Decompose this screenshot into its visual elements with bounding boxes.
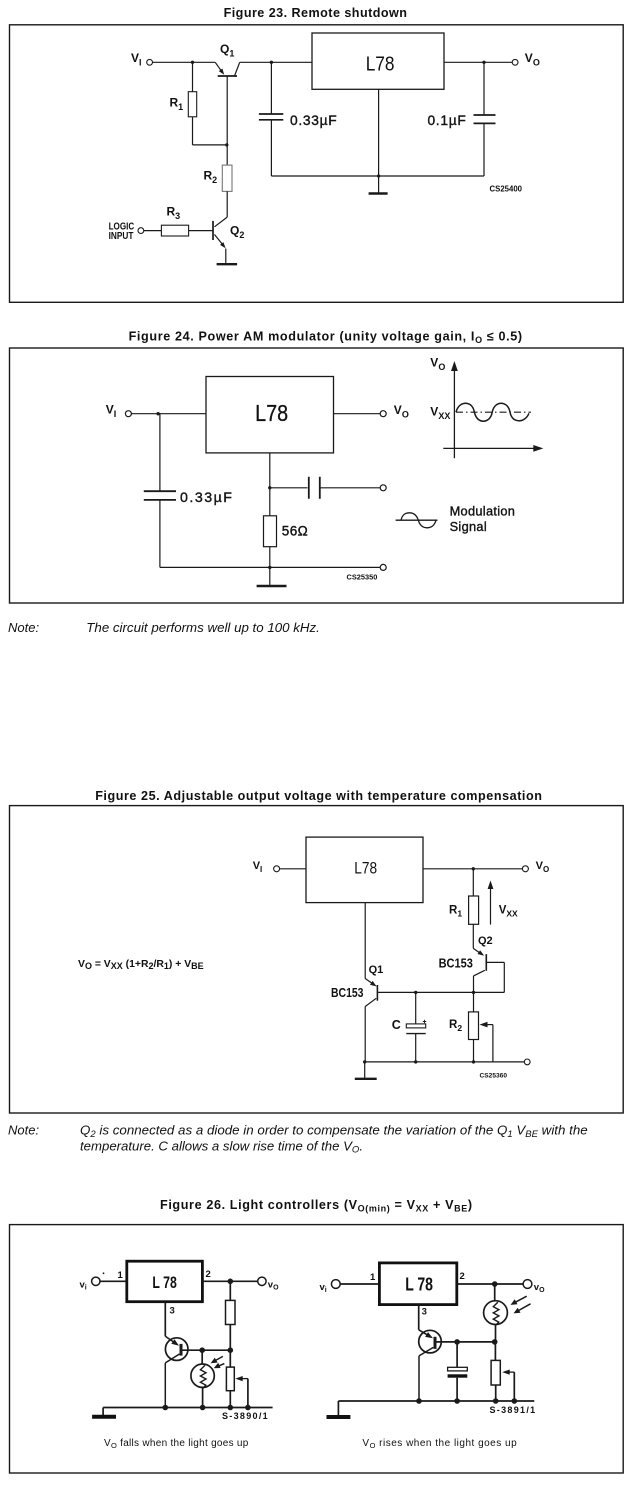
svg-text:Figure 24. Power AM modulator: Figure 24. Power AM modulator (unity vol…	[129, 330, 523, 346]
wire base line right	[437, 1341, 495, 1343]
wire ground rail	[365, 1061, 525, 1063]
wire ground rail right	[338, 1400, 534, 1402]
wire input	[132, 413, 207, 415]
svg-text:Note:: Note:	[8, 620, 39, 635]
svg-text:VO falls when the light goes u: VO falls when the light goes up	[104, 1438, 249, 1450]
node rail junctions left	[163, 1405, 169, 1411]
svg-text:CS25400: CS25400	[490, 185, 523, 194]
svg-text:3: 3	[422, 1307, 427, 1318]
regulator L78 left	[127, 1261, 203, 1302]
svg-text:1: 1	[118, 1270, 124, 1281]
svg-text:L78: L78	[354, 859, 377, 877]
wire regulator output	[444, 61, 512, 63]
terminal rail	[524, 1059, 530, 1065]
node cap 0.1 junction	[482, 61, 485, 64]
terminal rail	[380, 564, 386, 570]
wire input	[280, 868, 306, 870]
terminal VO	[512, 59, 518, 65]
wire input right	[340, 1283, 379, 1285]
regulator L78 right	[379, 1263, 456, 1305]
node output junction right	[492, 1281, 498, 1287]
potentiometer left	[229, 1350, 231, 1367]
node cap 0.33 junction	[270, 61, 273, 64]
wire input left	[100, 1280, 127, 1282]
wire regulator gnd pin	[378, 89, 380, 193]
svg-text:56Ω: 56Ω	[282, 524, 308, 539]
wire base line left	[183, 1349, 231, 1351]
wiper arrow right	[507, 1371, 514, 1373]
potentiometer right	[494, 1342, 496, 1361]
svg-text:3: 3	[170, 1306, 175, 1317]
resistor divider left	[229, 1281, 231, 1300]
svg-text:L 78: L 78	[152, 1273, 176, 1292]
wire ground rail	[160, 566, 380, 568]
terminal LOGIC INPUT	[138, 228, 144, 234]
Figure 23 border frame	[10, 25, 624, 303]
svg-text:L78: L78	[366, 54, 395, 76]
modulation signal symbol	[396, 519, 438, 521]
capacitor series	[309, 477, 320, 499]
ground	[269, 567, 271, 585]
ground right	[337, 1401, 339, 1415]
ground left	[102, 1408, 104, 1416]
svg-text:2: 2	[460, 1271, 465, 1282]
arrow VXX	[490, 887, 492, 925]
Figure 26 border frame	[10, 1225, 624, 1473]
Figure 24 border frame	[10, 348, 624, 603]
svg-text:Q1: Q1	[369, 964, 384, 976]
wiper arrow left	[240, 1378, 248, 1380]
light arrows left	[214, 1356, 223, 1361]
graph VO axis	[443, 367, 534, 458]
regulator U1 L78	[306, 837, 423, 903]
svg-text:Modulation: Modulation	[450, 503, 516, 518]
terminal vo left	[258, 1277, 266, 1285]
ground	[364, 1062, 366, 1078]
node Q2 collector junction	[472, 991, 475, 994]
wire R1 bottom to base node	[193, 144, 227, 146]
graph dash-dot level line	[456, 411, 531, 413]
node R1 top junction	[191, 61, 194, 64]
wiper arrow R2	[485, 1024, 493, 1026]
wire base line	[377, 991, 473, 993]
capacitor right	[456, 1342, 458, 1367]
wire ground rail left	[103, 1407, 273, 1409]
transistor Q left	[165, 1338, 188, 1361]
svg-text:temperature. C allows a slow r: temperature. C allows a slow rise time o…	[80, 1138, 363, 1155]
photoresistor right	[494, 1284, 496, 1301]
transistor Q right	[419, 1330, 442, 1353]
svg-text:L78: L78	[255, 400, 288, 426]
graph sine wave	[456, 403, 529, 421]
wire output right	[457, 1283, 523, 1285]
node rail junctions right	[416, 1398, 422, 1404]
svg-text:CS25360: CS25360	[480, 1072, 508, 1079]
wire output left	[202, 1280, 257, 1282]
svg-text:S-3891/1: S-3891/1	[490, 1405, 537, 1415]
terminal VO	[522, 866, 528, 872]
svg-text:S-3890/1: S-3890/1	[222, 1411, 269, 1421]
svg-text:0.1µF: 0.1µF	[427, 113, 466, 128]
svg-text:CS25350: CS25350	[347, 572, 378, 581]
svg-text:Figure 23. Remote shutdown: Figure 23. Remote shutdown	[224, 6, 408, 20]
svg-text:Signal: Signal	[450, 519, 487, 534]
svg-text:Note:: Note:	[8, 1122, 39, 1137]
wire series cap to terminal	[320, 487, 380, 489]
svg-text:Q2: Q2	[478, 935, 493, 947]
wire regulator output	[334, 413, 381, 415]
ground	[369, 192, 388, 194]
wire logic input	[144, 230, 162, 232]
capacitor 0.33uF	[270, 62, 272, 114]
svg-text:Figure 25. Adjustable output v: Figure 25. Adjustable output voltage wit…	[95, 789, 542, 803]
light arrows right	[515, 1296, 527, 1303]
node base junction	[225, 143, 228, 146]
resistor 56ohm	[264, 516, 277, 547]
svg-text:0.33µF: 0.33µF	[290, 113, 337, 128]
node series cap junction	[268, 486, 271, 489]
svg-text:VO rises when the light goes u: VO rises when the light goes up	[362, 1438, 517, 1450]
wire Q1 collector to regulator	[240, 61, 312, 63]
terminal vo right	[523, 1280, 532, 1289]
svg-text:0.33µF: 0.33µF	[180, 490, 233, 506]
regulator U1 L78	[312, 33, 444, 89]
node base junctions left	[199, 1347, 205, 1353]
terminal mod input	[380, 485, 386, 491]
svg-text:L 78: L 78	[405, 1274, 433, 1294]
wire pin 3 left	[164, 1303, 166, 1337]
svg-text:2: 2	[206, 1269, 211, 1280]
node output junction left	[228, 1279, 234, 1285]
capacitor 0.33uF	[159, 414, 161, 492]
svg-text:BC153: BC153	[331, 986, 364, 1000]
photoresistor left	[201, 1350, 203, 1364]
wire pin 3 right	[418, 1305, 420, 1330]
terminal VO	[380, 411, 386, 417]
svg-text:C: C	[392, 1018, 401, 1032]
node C junction	[414, 991, 417, 994]
Figure 25 border frame	[10, 806, 624, 1113]
node R1 junction	[472, 867, 475, 870]
svg-text:INPUT: INPUT	[109, 231, 134, 242]
regulator U1 L78	[206, 377, 334, 453]
wire ground rail	[271, 175, 484, 177]
node rail junction	[268, 566, 271, 569]
node input cap junction	[156, 412, 159, 415]
capacitor 0.1uF	[483, 62, 485, 115]
svg-text:The circuit performs well up t: The circuit performs well up to 100 kHz.	[86, 620, 320, 635]
svg-text:1: 1	[370, 1272, 376, 1283]
wire to series capacitor	[270, 487, 308, 489]
node rail junctions	[363, 1060, 366, 1063]
wire input to Q1 emitter	[153, 61, 216, 63]
wire regulator output	[423, 868, 522, 870]
svg-text:VO = VXX (1+R2/R1) + VBE: VO = VXX (1+R2/R1) + VBE	[78, 959, 204, 971]
svg-text:BC153: BC153	[439, 957, 473, 971]
node base junctions right	[454, 1339, 460, 1345]
wire regulator gnd pin	[269, 453, 271, 568]
plus mark C	[423, 1020, 426, 1024]
